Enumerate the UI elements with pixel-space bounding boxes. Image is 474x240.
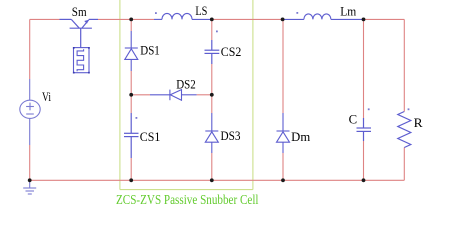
polarity mark Lm	[296, 12, 298, 14]
node DS1 top	[129, 18, 133, 22]
wire left branch above Vi	[29, 19, 31, 79]
node Dm bottom	[281, 178, 285, 182]
node CS1 bottom	[129, 178, 133, 182]
svg-text:CS1: CS1	[140, 130, 161, 144]
gating block of Sm	[74, 48, 90, 73]
polarity mark R	[408, 108, 410, 110]
wire CS2 to DS2 node	[211, 64, 213, 95]
wire LS node to Lm node	[212, 18, 283, 20]
wire right branch below R	[403, 148, 405, 181]
inductor LS	[154, 13, 212, 19]
svg-text:Vi: Vi	[42, 90, 51, 104]
polarity mark LS	[155, 12, 157, 14]
diode DS1	[125, 31, 138, 71]
svg-text:ZCS-ZVS Passive Snubber Cell: ZCS-ZVS Passive Snubber Cell	[116, 193, 259, 208]
svg-text:DS2: DS2	[176, 78, 196, 92]
node Lm right	[362, 18, 366, 22]
svg-text:Lm: Lm	[340, 5, 356, 19]
wire CS1 branch upper	[130, 95, 132, 113]
svg-text:DS1: DS1	[140, 44, 160, 58]
wire DS2 node to DS3	[211, 95, 213, 113]
wire CS2 branch upper	[211, 19, 213, 40]
inductor Lm	[283, 14, 364, 20]
diode DS2	[150, 90, 197, 101]
diode DS3	[205, 113, 218, 153]
node DS2 left	[129, 93, 133, 97]
wire DS2 row right	[197, 94, 212, 96]
source Vi	[20, 79, 40, 145]
wire Lm right node to top-right corner	[364, 18, 405, 20]
wire Dm branch upper	[282, 19, 284, 113]
capacitor C	[357, 118, 372, 141]
capacitor CS2	[205, 40, 220, 64]
diode Dm	[277, 113, 290, 153]
node LS right	[210, 18, 214, 22]
ground	[23, 180, 36, 194]
node C bottom	[362, 178, 366, 182]
svg-text:Sm: Sm	[72, 5, 87, 19]
node ground left	[28, 178, 32, 182]
polarity mark CS2	[216, 31, 218, 33]
transistor switch Sm	[60, 19, 99, 48]
svg-text:LS: LS	[195, 4, 207, 18]
wire C branch lower	[363, 141, 365, 180]
wire DS2 row left	[131, 94, 150, 96]
svg-text:R: R	[414, 116, 424, 130]
svg-text:DS3: DS3	[221, 129, 241, 143]
svg-text:C: C	[349, 112, 358, 126]
wire right branch above R	[403, 19, 405, 111]
wire top-left horizontal	[30, 18, 60, 20]
node DS2 right	[210, 93, 214, 97]
svg-text:CS2: CS2	[221, 45, 242, 59]
snubber cell boundary box (green)	[120, 0, 253, 190]
node DS3 bottom	[210, 178, 214, 182]
wire DS1 branch lower	[130, 71, 132, 95]
capacitor CS1	[124, 113, 139, 158]
polarity mark CS1	[136, 117, 138, 119]
wire C branch upper	[363, 19, 365, 118]
resistor R	[398, 112, 411, 148]
svg-text:Dm: Dm	[291, 130, 310, 144]
node Lm left	[281, 18, 285, 22]
wire left branch below Vi	[29, 145, 31, 180]
wire DS1 node to LS	[131, 18, 154, 20]
wire CS1 branch lower	[130, 158, 132, 180]
polarity mark C	[368, 108, 370, 110]
wire top middle (Sm emitter to DS1 node)	[98, 18, 131, 20]
wire bottom rail	[30, 179, 405, 181]
wire DS3 branch lower	[211, 153, 213, 180]
wire DS1 branch upper	[130, 19, 132, 31]
wire Dm branch lower	[282, 153, 284, 180]
